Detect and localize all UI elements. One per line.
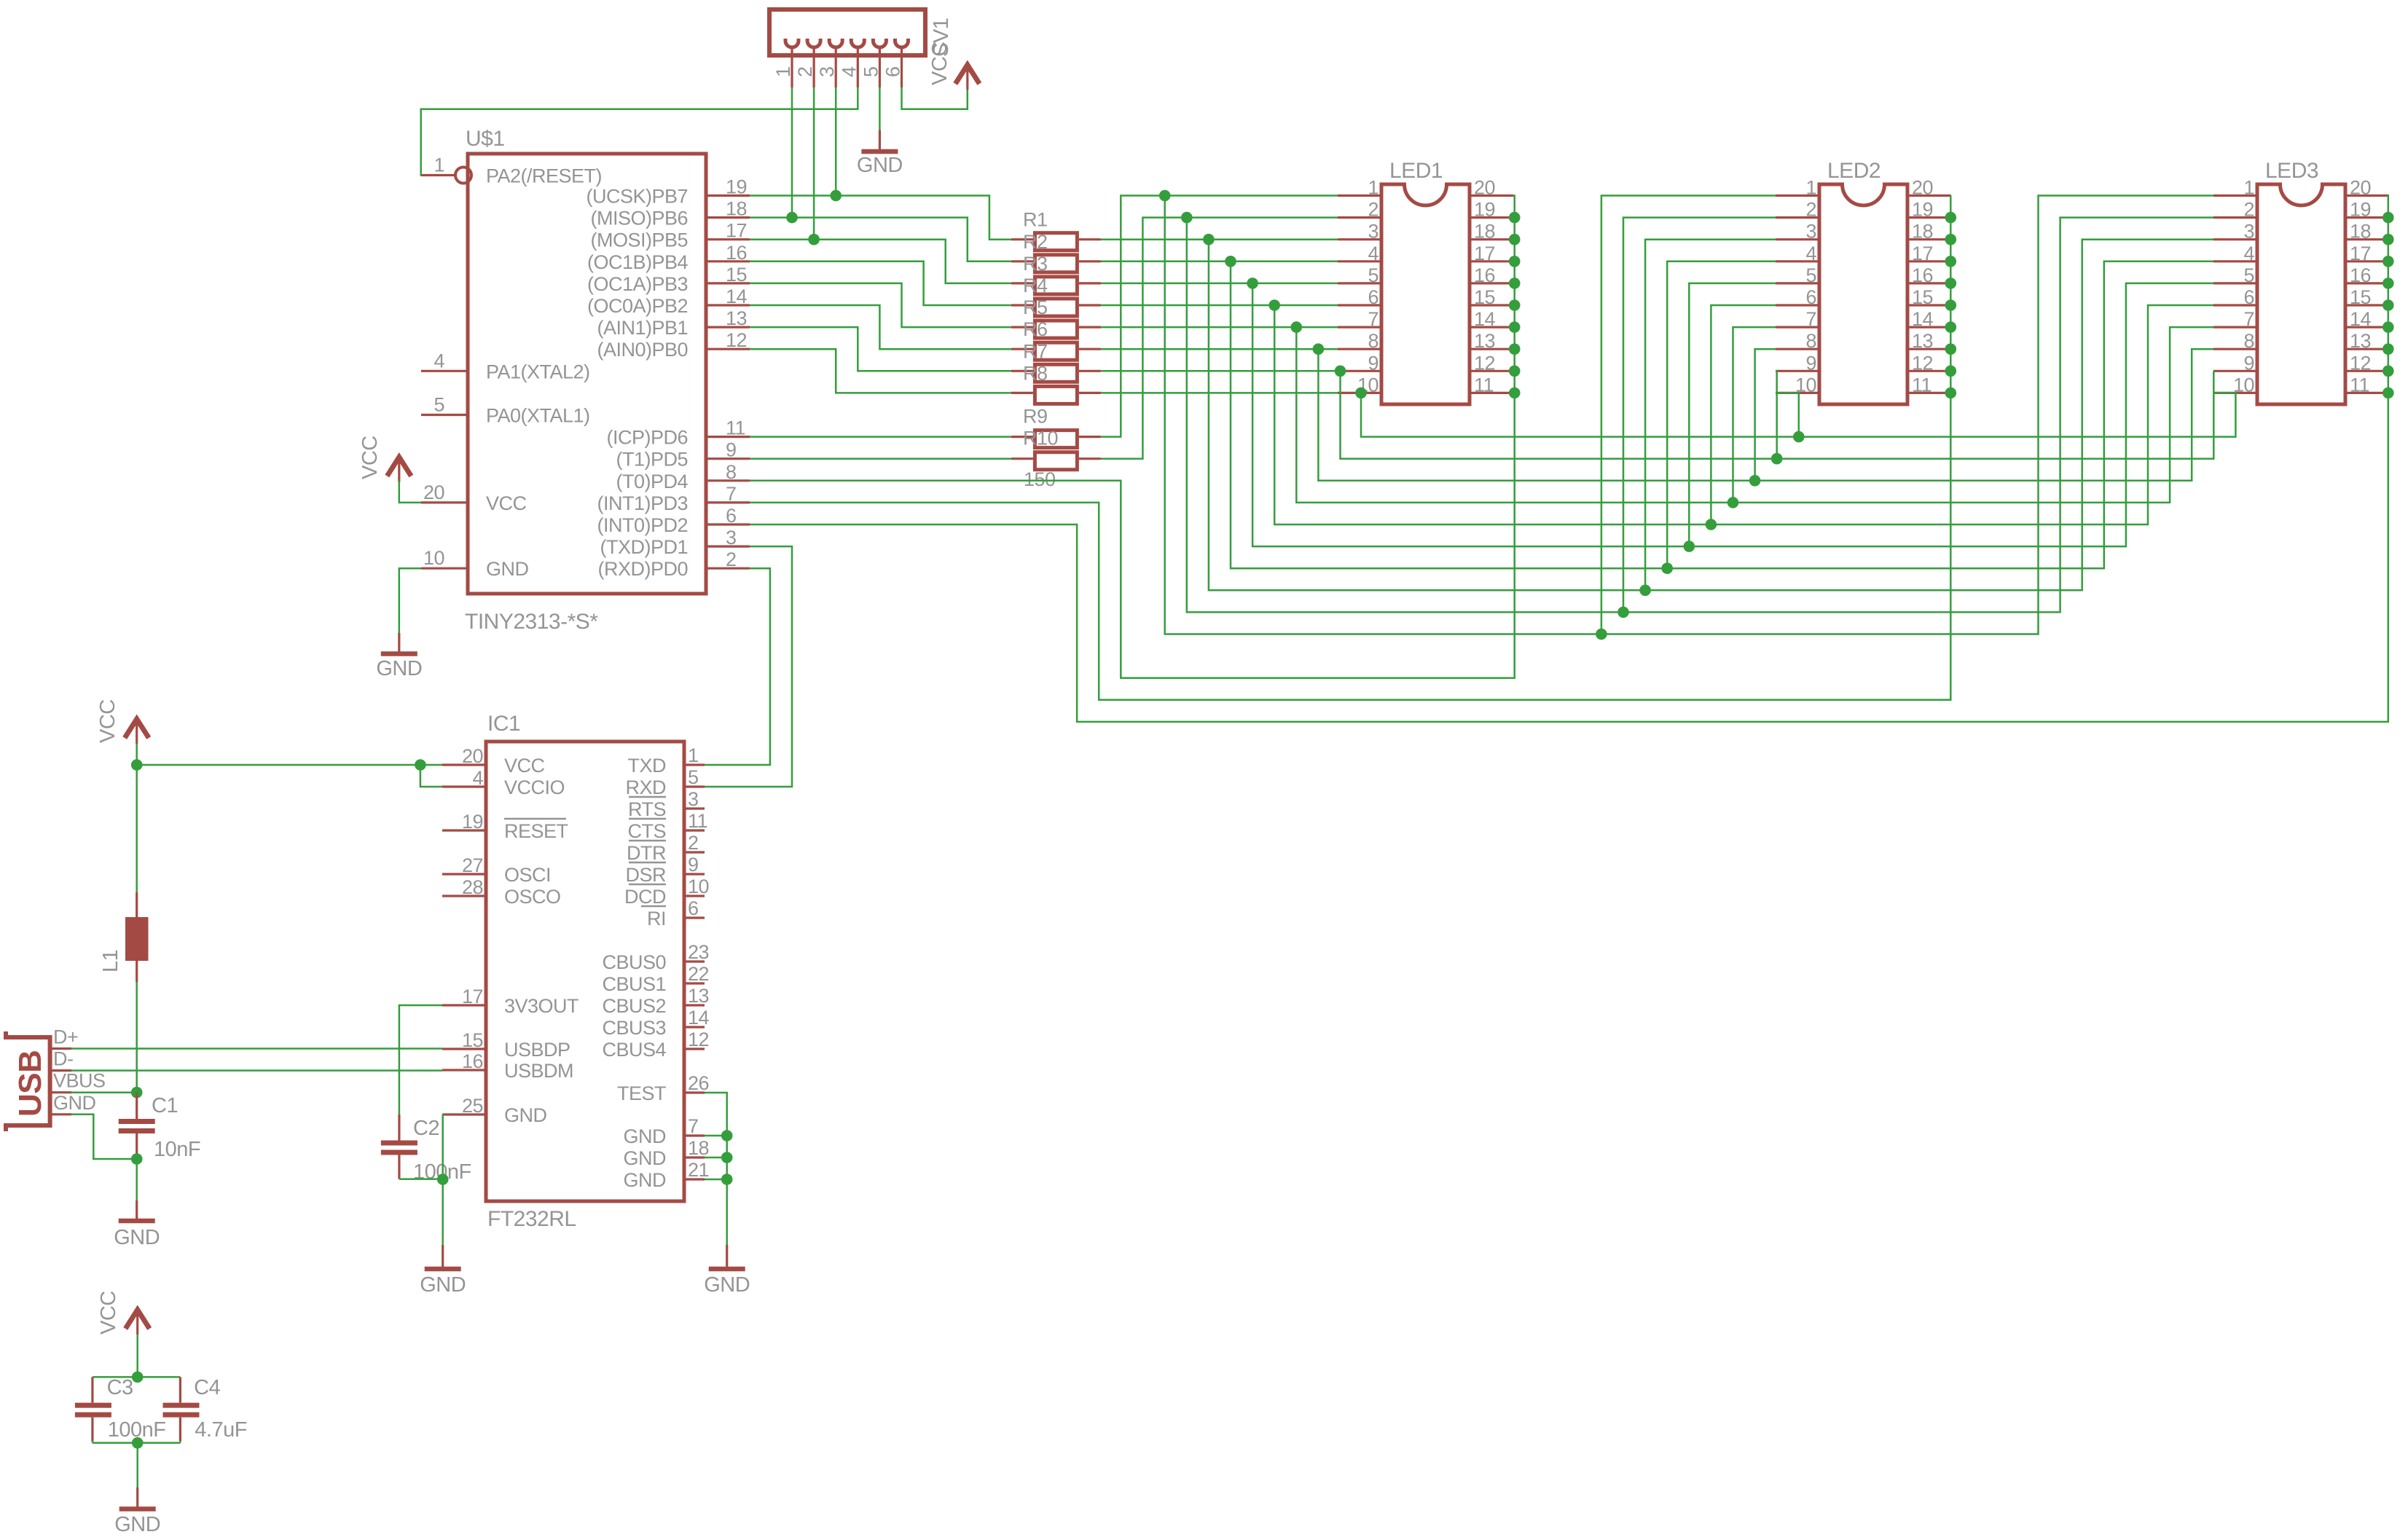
- wire net A3 branch down and across to LED2/LED3 risers: [1209, 240, 2213, 591]
- wire net VCC: arrow down to junction and to IC1 VCC/VCCIO: [137, 744, 442, 892]
- junction net A3 at LED2 riser: [1639, 585, 1651, 597]
- svg-text:19: 19: [2350, 199, 2371, 221]
- svg-text:GND: GND: [376, 657, 422, 680]
- U$1 pin 19 (UCSK)PB7: [586, 176, 750, 208]
- LED2 pin 7 stub: [1776, 308, 1819, 330]
- IC1 pin 28 OSCO: [442, 876, 561, 908]
- junction net A2 at LED1 branch: [1181, 212, 1193, 224]
- svg-text:14: 14: [2350, 308, 2372, 330]
- IC1 pin 3 RTS: [628, 788, 705, 820]
- svg-text:11: 11: [1912, 374, 1932, 396]
- svg-text:4: 4: [838, 66, 860, 77]
- wire net PD0/TXD: U$1 pin2 to IC1 TXD: [705, 568, 770, 765]
- junction GND at C2: [437, 1174, 449, 1185]
- svg-text:4: 4: [1368, 243, 1378, 264]
- LED2 pin 3 stub: [1776, 221, 1819, 243]
- LED3 pin 4 stub: [2213, 243, 2257, 264]
- svg-text:20: 20: [462, 745, 483, 767]
- SV1 pin 3 stub and number: [816, 47, 838, 87]
- junction at SV1 pin3 / PB7: [830, 190, 842, 202]
- wire net A9: R7 output to LED1 pin9: [1101, 370, 1338, 372]
- svg-text:RI: RI: [647, 908, 666, 929]
- svg-text:RESET: RESET: [504, 820, 568, 842]
- svg-text:2: 2: [726, 549, 737, 570]
- wire net A1 riser to LED2 pin1: [1601, 196, 1776, 634]
- svg-text:21: 21: [688, 1159, 709, 1181]
- svg-text:8: 8: [1368, 330, 1378, 352]
- junction GND bus at pin7: [721, 1130, 733, 1141]
- U$1 pin 15 (OC1A)PB3: [587, 264, 750, 295]
- wire net A4 riser to LED2 pin4: [1667, 262, 1776, 568]
- svg-text:8: 8: [2243, 330, 2254, 352]
- svg-text:5: 5: [434, 394, 444, 416]
- wire net GND: USB GND jog to C1 bottom: [71, 1115, 137, 1159]
- wire net A4: R2 output to LED1 pin4: [1101, 261, 1338, 263]
- ground symbol GND (below U$1 pin 10): [376, 633, 422, 680]
- svg-text:11: 11: [726, 417, 745, 439]
- wire net 3V3OUT: IC1 pin17 to C2: [399, 1005, 442, 1115]
- LED2 pin 16 stub: [1907, 264, 1951, 286]
- wire net VCC to U$1 pin20: [399, 481, 421, 503]
- junction net A5 at LED2 riser: [1684, 540, 1695, 552]
- svg-text:1: 1: [434, 154, 444, 176]
- svg-text:1: 1: [1368, 177, 1378, 199]
- IC U$1 TINY2313 body: [468, 154, 706, 594]
- svg-text:3: 3: [1368, 221, 1378, 243]
- junction net A1 at LED2 riser: [1596, 629, 1607, 640]
- capacitor C2: [381, 1115, 471, 1184]
- svg-text:1: 1: [2243, 177, 2254, 199]
- resistor R10: [1011, 428, 1101, 470]
- wire net VBUS from USB pin: [71, 1091, 137, 1093]
- wire net PD1/RXD: U$1 pin3 to IC1 RXD: [705, 546, 792, 787]
- svg-text:3: 3: [816, 66, 838, 77]
- junction GND bus at pin18: [721, 1152, 733, 1163]
- svg-text:U$1: U$1: [466, 127, 505, 151]
- svg-text:L1: L1: [99, 950, 122, 972]
- svg-text:15: 15: [1912, 286, 1933, 308]
- LED3 pin 13 stub: [2345, 330, 2389, 352]
- svg-text:6: 6: [1368, 286, 1378, 308]
- wire net A3: R1 output to LED1 pin3: [1101, 238, 1338, 240]
- svg-text:PA2(/RESET): PA2(/RESET): [486, 165, 602, 187]
- U$1 pin 18 (MISO)PB6: [590, 198, 750, 229]
- LED3 pin 5 stub: [2213, 264, 2257, 286]
- LED1 pin 14 stub: [1470, 308, 1513, 330]
- wire net A7 branch down and across to LED2/LED3 risers: [1296, 327, 2213, 503]
- svg-text:LED3: LED3: [2265, 159, 2318, 183]
- svg-text:GND: GND: [624, 1125, 667, 1147]
- svg-text:2: 2: [1368, 199, 1378, 221]
- svg-text:VCC: VCC: [96, 699, 119, 743]
- svg-text:(OC0A)PB2: (OC0A)PB2: [587, 295, 688, 317]
- LED2 pin 14 stub: [1907, 308, 1951, 330]
- resistor R8: [1011, 362, 1101, 404]
- svg-text:14: 14: [1912, 308, 1934, 330]
- IC1 pin 19 RESET: [442, 811, 568, 842]
- junction net A7 at LED2 riser: [1727, 497, 1739, 508]
- svg-text:16: 16: [1474, 264, 1495, 286]
- svg-text:VCC: VCC: [486, 492, 527, 514]
- U$1 pin 4 PA1(XTAL2): [421, 350, 590, 382]
- svg-text:GND: GND: [504, 1104, 547, 1126]
- svg-text:17: 17: [462, 986, 483, 1007]
- USB pin D-: [50, 1048, 74, 1071]
- SV1 pin 1 stub and number: [772, 47, 794, 87]
- svg-text:14: 14: [1474, 308, 1496, 330]
- LED3 pin 11 stub: [2345, 374, 2389, 396]
- svg-text:VCC: VCC: [928, 42, 952, 85]
- wire net PB4 from U$1 to resistor R4: [750, 262, 1011, 305]
- LED3 pin 20 stub: [2345, 177, 2389, 199]
- svg-text:9: 9: [1805, 352, 1816, 374]
- svg-text:CBUS2: CBUS2: [602, 995, 666, 1017]
- svg-text:FT232RL: FT232RL: [487, 1207, 576, 1231]
- svg-text:CBUS3: CBUS3: [602, 1017, 666, 1039]
- LED3 pin 9 stub: [2213, 352, 2257, 374]
- junction net A4 at LED1 branch: [1225, 256, 1236, 267]
- junction net A6 at LED1 branch: [1268, 299, 1280, 311]
- svg-text:DCD: DCD: [624, 886, 666, 908]
- wire net A10 branch down and across to LED2/LED3 risers: [1361, 393, 2235, 436]
- LED3 pin 10 stub: [2213, 374, 2257, 396]
- svg-text:(OC1A)PB3: (OC1A)PB3: [587, 273, 688, 295]
- svg-text:3V3OUT: 3V3OUT: [504, 995, 579, 1017]
- wire net D-: USB to IC1 USBDM: [71, 1069, 442, 1072]
- svg-text:16: 16: [1912, 264, 1933, 286]
- svg-text:7: 7: [2243, 308, 2254, 330]
- LED2 pin 6 stub: [1776, 286, 1819, 308]
- resistor R1: [1011, 209, 1101, 251]
- svg-text:5: 5: [860, 66, 882, 77]
- LED3 pin 14 stub: [2345, 308, 2389, 330]
- svg-text:GND: GND: [53, 1092, 96, 1114]
- svg-text:(UCSK)PB7: (UCSK)PB7: [586, 186, 688, 208]
- svg-text:16: 16: [462, 1050, 483, 1072]
- LED display LED2 body: [1819, 184, 1907, 404]
- svg-text:7: 7: [1805, 308, 1816, 330]
- IC1 pin 22 CBUS1: [602, 963, 709, 995]
- U$1 pin 16 (OC1B)PB4: [587, 242, 750, 273]
- U$1 pin 1 PA2(/RESET): [421, 154, 602, 187]
- svg-text:CBUS0: CBUS0: [602, 951, 666, 973]
- wire net PB7 from U$1 to resistor R1: [750, 196, 1011, 240]
- wire net GND from U$1 pin10: [399, 568, 421, 633]
- svg-text:12: 12: [726, 329, 747, 351]
- svg-text:13: 13: [2350, 330, 2371, 352]
- LED3 pin 6 stub: [2213, 286, 2257, 308]
- svg-text:4: 4: [472, 767, 483, 789]
- IC1 pin 15 USBDP: [442, 1029, 570, 1061]
- wire net PB6 from U$1 to resistor R2: [750, 218, 1011, 262]
- U$1 value label TINY2313-*S*: [465, 610, 598, 634]
- svg-text:GND: GND: [114, 1513, 160, 1536]
- svg-text:22: 22: [688, 963, 709, 985]
- resistor value label 150: [1024, 468, 1056, 490]
- svg-text:6: 6: [688, 897, 699, 919]
- svg-text:5: 5: [2243, 264, 2254, 286]
- LED1 pin 20 stub: [1470, 177, 1513, 199]
- wire net A4 branch down and across to LED2/LED3 risers: [1231, 262, 2213, 568]
- U$1 pin 11 (ICP)PD6: [606, 417, 750, 449]
- svg-text:R4: R4: [1023, 275, 1048, 296]
- junction VCC at C3/C4 top: [132, 1372, 144, 1383]
- svg-text:18: 18: [688, 1137, 709, 1159]
- junction VCC at VCCIO branch: [415, 759, 426, 771]
- LED2 pin 20 stub: [1907, 177, 1951, 199]
- IC1 pin 4 VCCIO: [442, 767, 565, 798]
- LED1 pin 10 stub: [1338, 374, 1381, 396]
- U$1 pin 6 (INT0)PD2: [597, 505, 750, 536]
- connector SV1 name label: [930, 18, 953, 57]
- svg-text:2: 2: [794, 66, 816, 77]
- wire net PB2 from U$1 to resistor R6: [750, 305, 1011, 349]
- IC1 pin 10 DCD: [624, 876, 709, 908]
- junction net A5 at LED1 branch: [1247, 278, 1258, 289]
- wire net A5: R3 output to LED1 pin5: [1101, 283, 1338, 285]
- svg-text:GND: GND: [624, 1169, 667, 1191]
- svg-text:13: 13: [1912, 330, 1933, 352]
- LED2 pin 4 stub: [1776, 243, 1819, 264]
- IC1 pin 21 GND: [624, 1159, 710, 1191]
- svg-text:17: 17: [2350, 243, 2371, 264]
- svg-text:(ICP)PD6: (ICP)PD6: [606, 427, 688, 449]
- power symbol VCC (at U$1 pin 20): [358, 436, 411, 481]
- svg-text:TXD: TXD: [628, 755, 667, 777]
- LED1 pin 1 stub: [1338, 177, 1381, 199]
- wire net MOSI: SV1 pin1 to PB6 row: [791, 87, 793, 218]
- svg-text:19: 19: [1474, 199, 1495, 221]
- svg-text:20: 20: [423, 481, 444, 503]
- svg-text:R10: R10: [1023, 428, 1058, 449]
- LED3 pin 19 stub: [2345, 199, 2389, 221]
- svg-text:7: 7: [688, 1115, 699, 1137]
- connector SV1 body: [769, 9, 925, 55]
- junction GND bus at pin21: [721, 1174, 733, 1185]
- svg-text:15: 15: [2350, 286, 2371, 308]
- IC IC1 FT232RL body: [486, 742, 684, 1201]
- LED3 pin 3 stub: [2213, 221, 2257, 243]
- wire net D+: USB to IC1 USBDP: [71, 1047, 442, 1050]
- resistor R4: [1011, 275, 1101, 316]
- svg-text:12: 12: [2350, 352, 2371, 374]
- svg-text:20: 20: [1474, 177, 1495, 199]
- junction VCC at L1 top: [131, 759, 143, 771]
- svg-text:3: 3: [1805, 221, 1816, 243]
- junction net A7 at LED1 branch: [1291, 321, 1303, 333]
- svg-text:2: 2: [2243, 199, 2254, 221]
- svg-text:R6: R6: [1023, 318, 1048, 340]
- svg-text:(INT0)PD2: (INT0)PD2: [597, 514, 688, 536]
- wire net A6 branch down and across to LED2/LED3 risers: [1274, 305, 2213, 524]
- LED3 pin 17 stub: [2345, 243, 2389, 264]
- svg-text:18: 18: [2350, 221, 2371, 243]
- ground symbol GND (below C3/C4): [114, 1487, 160, 1536]
- LED3 pin 7 stub: [2213, 308, 2257, 330]
- wire net A8 riser to LED2 pin8: [1755, 349, 1776, 481]
- svg-text:D-: D-: [53, 1048, 74, 1070]
- resistor R2: [1011, 231, 1101, 272]
- svg-text:14: 14: [688, 1007, 710, 1029]
- capacitor C4: [163, 1376, 247, 1442]
- svg-text:23: 23: [688, 941, 709, 963]
- LED2 pin 9 stub: [1776, 352, 1819, 374]
- svg-text:9: 9: [2243, 352, 2254, 374]
- U$1 pin 17 (MOSI)PB5: [590, 220, 750, 251]
- svg-text:VCCIO: VCCIO: [504, 777, 565, 798]
- wire net A2: R10 output up to LED pin2 row: [1101, 218, 1338, 459]
- svg-text:25: 25: [462, 1095, 483, 1117]
- wire net A5 branch down and across to LED2/LED3 risers: [1252, 283, 2213, 546]
- svg-text:VCC: VCC: [97, 1291, 120, 1334]
- wire net A6: R4 output to LED1 pin6: [1101, 304, 1338, 307]
- wire net A3 riser to LED2 pin3: [1645, 240, 1776, 591]
- svg-text:GND: GND: [857, 154, 903, 177]
- wire net A7 riser to LED2 pin7: [1733, 327, 1776, 503]
- svg-text:(AIN1)PB1: (AIN1)PB1: [597, 317, 688, 339]
- svg-text:15: 15: [1474, 286, 1495, 308]
- svg-text:3: 3: [2243, 221, 2254, 243]
- svg-text:5: 5: [1368, 264, 1378, 286]
- svg-text:C4: C4: [194, 1376, 220, 1399]
- junction net A10 at LED1 branch: [1355, 388, 1367, 399]
- svg-text:12: 12: [1474, 352, 1495, 374]
- svg-text:VCC: VCC: [358, 436, 382, 479]
- svg-text:TINY2313-*S*: TINY2313-*S*: [465, 610, 598, 634]
- wire net A9 riser to LED2 pin9: [1776, 371, 1777, 458]
- svg-text:11: 11: [2350, 374, 2369, 396]
- svg-text:(MISO)PB6: (MISO)PB6: [590, 208, 688, 229]
- LED1 pin 19 stub: [1470, 199, 1513, 221]
- svg-text:(OC1B)PB4: (OC1B)PB4: [587, 251, 689, 273]
- LED2 name label: [1827, 159, 1880, 183]
- LED1 pin 9 stub: [1338, 352, 1381, 374]
- svg-text:9: 9: [688, 854, 699, 876]
- LED2 pin 13 stub: [1907, 330, 1951, 352]
- junction net A4 at LED2 riser: [1661, 562, 1673, 574]
- junction net A2 at LED2 riser: [1617, 607, 1629, 618]
- svg-text:3: 3: [688, 788, 699, 810]
- U$1 pin 13 (AIN1)PB1: [597, 307, 750, 339]
- svg-text:USB: USB: [12, 1050, 48, 1117]
- LED2 pin 10 stub: [1776, 374, 1819, 396]
- svg-text:13: 13: [726, 307, 747, 329]
- LED2 pin 15 stub: [1907, 286, 1951, 308]
- U$1 pin 5 PA0(XTAL1): [421, 394, 590, 427]
- svg-text:18: 18: [1912, 221, 1933, 243]
- svg-text:4: 4: [2243, 243, 2254, 264]
- svg-text:C2: C2: [413, 1117, 439, 1140]
- LED1 pin 11 stub: [1470, 374, 1513, 396]
- wire net A1 branch down and across to LED2/LED3 risers: [1165, 196, 2213, 634]
- svg-text:(RXD)PD0: (RXD)PD0: [597, 558, 688, 580]
- svg-text:3: 3: [726, 527, 737, 549]
- LED3 pin 18 stub: [2345, 221, 2389, 243]
- svg-text:15: 15: [462, 1029, 483, 1051]
- IC1 pin 20 VCC: [442, 745, 545, 777]
- SV1 pin 5 stub and number: [860, 47, 882, 87]
- wire net PB1 from U$1 to resistor R7: [750, 327, 1011, 371]
- IC1 pin 18 GND: [624, 1137, 710, 1169]
- svg-text:CTS: CTS: [628, 820, 667, 842]
- SV1 pin 6 stub and number: [882, 47, 904, 87]
- wire net A5 riser to LED2 pin5: [1689, 283, 1776, 546]
- svg-text:R5: R5: [1023, 296, 1048, 318]
- svg-text:18: 18: [1474, 221, 1495, 243]
- inductor L1: [99, 892, 149, 982]
- svg-text:(T0)PD4: (T0)PD4: [616, 471, 688, 492]
- IC1 pin 1 TXD: [628, 744, 705, 777]
- svg-text:R8: R8: [1023, 362, 1048, 384]
- LED1 pin 8 stub: [1338, 330, 1381, 352]
- svg-text:19: 19: [1912, 199, 1933, 221]
- LED1 pin 4 stub: [1338, 243, 1381, 264]
- LED1 pin 7 stub: [1338, 308, 1381, 330]
- IC1 pin 16 USBDM: [442, 1050, 573, 1082]
- LED1 pin 18 stub: [1470, 221, 1513, 243]
- power symbol VCC (at SV1 pin 6): [928, 42, 979, 90]
- svg-text:GND: GND: [486, 558, 529, 580]
- LED2 pin 1 stub: [1776, 177, 1819, 199]
- wire net VCC down to C3/C4 top rail: [93, 1334, 180, 1377]
- junction net A8 at LED2 riser: [1749, 475, 1761, 487]
- resistor R6: [1011, 318, 1101, 360]
- svg-text:28: 28: [462, 876, 483, 898]
- SV1 pin 2 stub and number: [794, 47, 816, 87]
- LED2 pin 19 stub: [1907, 199, 1951, 221]
- svg-text:6: 6: [1805, 286, 1816, 308]
- LED3 pin 15 stub: [2345, 286, 2389, 308]
- LED2 pin 2 stub: [1776, 199, 1819, 221]
- LED3 pin 8 stub: [2213, 330, 2257, 352]
- IC1 name label: [487, 712, 520, 736]
- wire net A2 riser to LED2 pin2: [1623, 218, 1776, 613]
- wire net PB3 from U$1 to resistor R5: [750, 283, 1011, 327]
- svg-text:27: 27: [462, 854, 483, 876]
- LED2 pin 11 stub: [1907, 374, 1951, 396]
- LED2 pin 12 stub: [1907, 352, 1951, 374]
- IC1 pin 27 OSCI: [442, 854, 551, 886]
- svg-text:GND: GND: [420, 1273, 466, 1297]
- svg-text:GND: GND: [114, 1226, 160, 1249]
- LED3 pin 1 stub: [2213, 177, 2257, 199]
- LED3 name label: [2265, 159, 2318, 183]
- LED1 pin 2 stub: [1338, 199, 1381, 221]
- junctions LED3 cathode bus: [2382, 212, 2394, 398]
- U$1 pin 20 VCC: [421, 481, 527, 514]
- svg-text:IC1: IC1: [487, 712, 520, 736]
- wire net PB0 from U$1 to resistor R8: [750, 349, 1011, 393]
- wire net A2 branch down and across to LED2/LED3 risers: [1187, 218, 2213, 613]
- svg-text:DSR: DSR: [625, 864, 666, 886]
- wire net PD3 cathode bus of LED2 (to U$1 pin 7): [750, 196, 1951, 700]
- junctions LED1 cathode bus: [1509, 212, 1521, 398]
- svg-text:4.7uF: 4.7uF: [195, 1418, 247, 1442]
- svg-text:OSCO: OSCO: [504, 886, 561, 908]
- IC1 pin 13 CBUS2: [602, 985, 709, 1017]
- svg-text:DTR: DTR: [627, 842, 666, 864]
- USB pin VBUS: [50, 1070, 106, 1093]
- svg-text:5: 5: [1805, 264, 1816, 286]
- wire net PD4 cathode bus of LED1 (to U$1 pin 8): [750, 196, 1515, 678]
- power symbol VCC (above C3/C4): [97, 1291, 149, 1334]
- svg-text:7: 7: [1368, 308, 1378, 330]
- wire net MISO: SV1 pin2 to PB5 row: [813, 87, 815, 240]
- resistor R7: [1011, 340, 1101, 382]
- IC1 pin 2 DTR: [627, 832, 705, 864]
- svg-text:R7: R7: [1023, 340, 1048, 362]
- junction net A3 at LED1 branch: [1203, 234, 1215, 245]
